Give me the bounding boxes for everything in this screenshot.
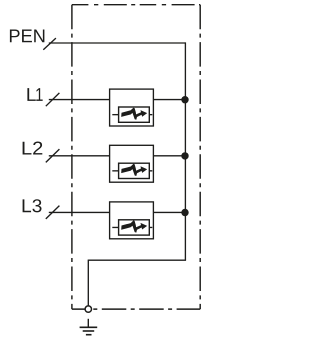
arrester F2 right stub <box>149 170 152 172</box>
arrester F3 left stub <box>112 226 118 228</box>
ground symbol bar 3 <box>86 334 92 336</box>
arrester F3 outer box <box>110 202 154 239</box>
ground symbol stem <box>87 319 89 328</box>
L3 line mark (slash) <box>46 206 60 219</box>
arrester F3 element (box with surge arrow) <box>119 220 150 235</box>
wire PEN bus vertical <box>184 42 186 260</box>
wire PEN horizontal <box>49 42 186 44</box>
L2 label <box>23 142 43 155</box>
wire L3 right <box>153 211 185 213</box>
arrester F1 right stub <box>149 114 152 116</box>
wire L2 left <box>49 155 110 157</box>
arrester F2 left stub <box>112 170 118 172</box>
junction dot L2/bus <box>181 152 188 159</box>
L3 label <box>23 199 42 212</box>
ground symbol bar 1 <box>80 326 98 328</box>
wire L1 right <box>153 99 185 101</box>
arrester F1 outer box <box>110 89 154 126</box>
wire L2 right <box>153 155 185 157</box>
earthing terminal (open circle) <box>85 306 91 312</box>
wire L1 left <box>49 99 110 101</box>
L2 line mark (slash) <box>46 149 60 162</box>
arrester F2 outer box <box>110 145 154 182</box>
arrester F3 right stub <box>149 226 152 228</box>
arrester F1 left stub <box>112 114 118 116</box>
junction dot L3/bus <box>181 209 188 216</box>
wire L3 left <box>49 211 110 213</box>
L1 line mark (slash) <box>46 93 60 106</box>
junction dot L1/bus <box>181 96 188 103</box>
PEN label <box>10 30 45 43</box>
PEN line mark (slash) <box>43 38 56 50</box>
arrester F2 element (box with surge arrow) <box>119 163 150 178</box>
ground symbol bar 2 <box>83 330 95 332</box>
enclosure boundary (dash-dot frame) <box>72 5 200 309</box>
arrester F1 element (box with surge arrow) <box>119 107 150 122</box>
wire down to earthing terminal <box>87 260 89 306</box>
L1 label <box>27 88 42 101</box>
wire bottom horizontal run <box>88 259 186 261</box>
